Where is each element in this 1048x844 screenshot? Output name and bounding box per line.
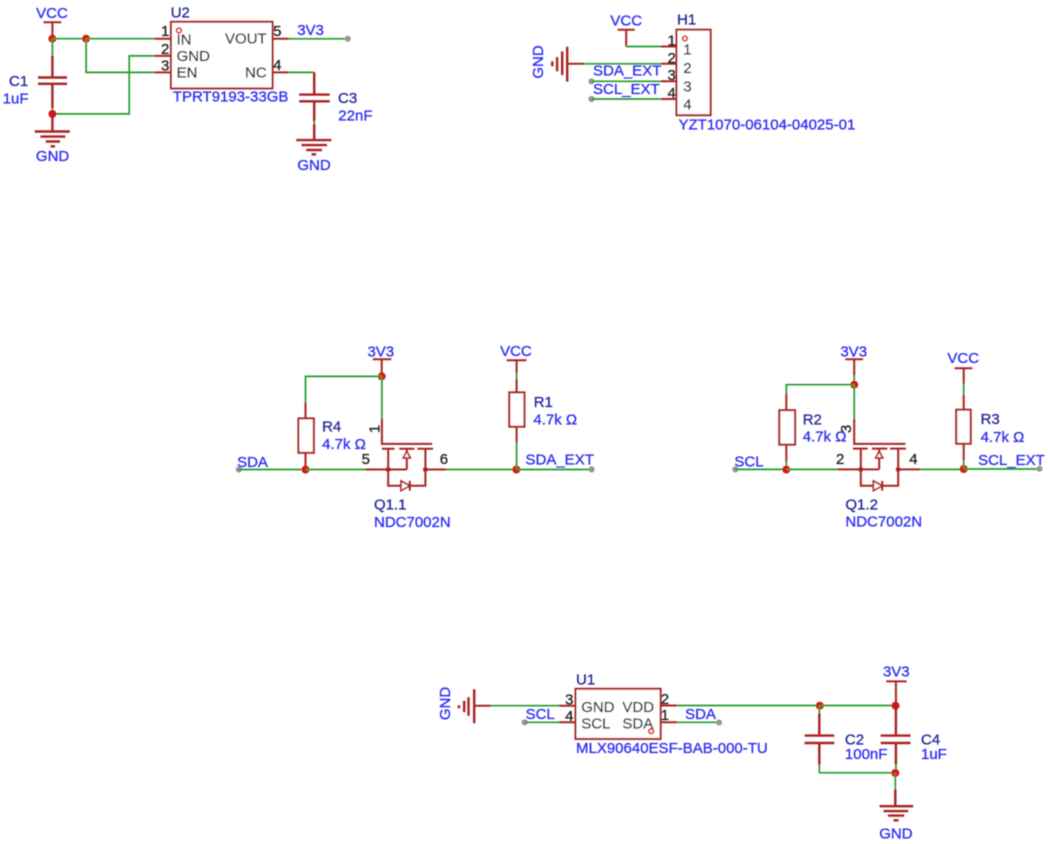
junction R3 bottom [960,465,968,473]
svg-text:5: 5 [273,23,281,40]
wire 3V3 to R2 top [786,385,854,394]
svg-text:NDC7002N: NDC7002N [845,513,922,530]
label C1 [9,73,28,90]
svg-text:VCC: VCC [500,343,532,360]
wire Q1.1 drain to SDA_EXT [446,469,516,471]
svg-text:R2: R2 [803,411,822,428]
svg-text:2: 2 [683,60,691,77]
svg-text:4.7k Ω: 4.7k Ω [533,411,577,428]
svg-text:GND: GND [297,157,331,174]
junction 3V3 gate node (SCL) [850,381,858,389]
junction node A2 [82,35,90,43]
label C3 [338,90,357,107]
resistor R3 [956,384,971,469]
svg-text:VCC: VCC [610,12,642,29]
wire GND to U1 pin3 [491,705,559,707]
capacitor C3 [299,72,330,140]
H1 inside pin name 1 [683,42,691,59]
junction C4 bottom [891,769,899,777]
svg-text:3V3: 3V3 [883,663,910,680]
net port dot 3V3 [345,36,351,42]
svg-text:NC: NC [245,65,267,82]
junction R4 bottom [302,466,310,474]
svg-text:R4: R4 [322,419,341,436]
pin name VOUT [225,31,267,48]
svg-text:TPRT9193-33GB: TPRT9193-33GB [173,89,289,106]
svg-text:GND: GND [581,699,615,716]
H1 outside pin number 2 [667,50,675,67]
power flag VCC (R1) [500,343,532,373]
value YZT1070-06104-04025-01 [679,116,856,133]
pin 1 marker circle U1 [649,729,654,734]
value 22nF [338,107,372,124]
net label 3V3 [297,22,324,39]
svg-text:VDD: VDD [622,699,654,716]
pin number 4 [273,57,281,74]
pin number 3 (U1) [565,692,573,709]
pin number 2 [161,41,169,58]
U1 pin stubs [559,706,677,723]
H1 inside pin name 3 [683,78,691,95]
wire 3V3 flag lead [853,376,855,385]
svg-text:4.7k Ω: 4.7k Ω [322,436,366,453]
net label SDA_EXT [526,451,594,468]
pin number 1 (Q1.1 gate, rotated) [367,425,384,433]
pin number 6 (Q1.1 drain) [440,451,448,468]
pin name IN [177,31,192,48]
svg-text:2: 2 [661,691,669,708]
svg-text:NDC7002N: NDC7002N [374,514,451,531]
svg-text:2: 2 [667,50,675,67]
net label SDA_EXT (H1) [593,63,661,80]
svg-text:GND: GND [879,826,913,843]
power flag 3V3 (SCL shifter) [840,344,867,376]
resistor R4 [298,402,313,469]
value 4.7kOhm (R1) [533,411,577,428]
net label SCL_EXT [978,452,1045,469]
capacitor C2 [805,706,835,773]
wire U2 pin2 GND to C1 bottom [52,56,154,114]
wire VDD to C2 [677,705,820,707]
pin number 2 (Q1.2 source) [836,451,844,468]
H1 outside pin number 1 [667,32,675,49]
svg-text:1uF: 1uF [3,90,29,107]
wire VCC to node [52,38,86,40]
svg-text:4: 4 [273,57,281,74]
H1 outside pin number 4 [667,85,675,102]
wire SCL_EXT to H1 pin4 [592,98,661,100]
ground (U1 pin3, rotated) [437,687,491,724]
svg-text:GND: GND [437,687,454,721]
U2 pin stubs [155,39,289,73]
svg-text:1: 1 [367,425,384,433]
junction R2 bottom [782,466,790,474]
net port dot SCL (U1) [522,719,528,725]
capacitor C1 [38,39,67,114]
designator U2 [171,5,190,22]
wire R2 node to Q1.2 source [786,468,837,470]
resistor R2 [779,394,795,470]
value NDC7002N (Q1.2) [845,513,922,530]
label R2 [803,411,822,428]
pin name VDD (U1) [622,699,654,716]
value TPRT9193-33GB [173,89,289,106]
pin number 5 [273,23,281,40]
svg-text:SCL: SCL [526,706,555,723]
svg-text:R3: R3 [981,411,1000,428]
H1 inside pin name 4 [683,96,691,113]
pin name GND (U1) [581,699,615,716]
ground (below C4) [879,789,913,842]
pin name SDA (U1) [622,716,653,733]
svg-text:100nF: 100nF [845,746,888,763]
value 100nF [845,746,888,763]
svg-text:3: 3 [565,692,573,709]
transistor Q1.1 [365,418,446,490]
wire C2 bottom to C4 bottom [819,772,895,774]
designator U1 [576,672,595,689]
H1 pin stubs [661,47,677,100]
svg-text:SDA_EXT: SDA_EXT [593,63,661,80]
net label SCL (U1) [526,706,555,723]
designator Q1.1 [374,496,407,513]
pin name EN [177,65,198,82]
value 4.7kOhm (R4) [322,436,366,453]
svg-text:2: 2 [161,41,169,58]
svg-text:GND: GND [530,45,547,79]
wire node to U2 pin3 EN [86,39,154,73]
pin 1 marker circle U2 [177,28,182,33]
svg-text:6: 6 [440,451,448,468]
net port dot SDA_EXT [588,466,594,472]
IC U2 body [171,22,273,89]
power flag 3V3 (U1) [883,663,910,705]
wire VOUT to 3V3 port [289,38,348,40]
pin number 5 (Q1.1 source) [362,451,370,468]
svg-text:3: 3 [667,67,675,84]
svg-text:3: 3 [683,78,691,95]
wire SDA_EXT to H1 pin3 [592,80,661,82]
wire GND to H1 pin2 [584,63,661,65]
wire 3V3 to Q1.1 gate [381,376,383,418]
svg-text:22nF: 22nF [338,107,372,124]
pin number 3 [161,57,169,74]
svg-text:GND: GND [36,148,70,165]
svg-text:4: 4 [565,708,573,725]
svg-text:SDA_EXT: SDA_EXT [526,451,594,468]
junction C2 top [816,702,824,710]
svg-text:1: 1 [661,707,669,724]
svg-text:YZT1070-06104-04025-01: YZT1070-06104-04025-01 [679,116,856,133]
svg-text:Q1.2: Q1.2 [845,497,878,514]
junction at C1 bottom [48,110,56,118]
label R4 [322,419,341,436]
pin name GND [177,48,211,65]
svg-text:3: 3 [838,425,855,433]
svg-text:1uF: 1uF [921,746,947,763]
H1 outside pin number 3 [667,67,675,84]
pin number 2 (U1) [661,691,669,708]
power flag 3V3 (SDA shifter) [367,343,394,376]
svg-text:4.7k Ω: 4.7k Ω [981,429,1025,446]
svg-text:1: 1 [683,42,691,59]
svg-text:VOUT: VOUT [225,31,267,48]
svg-text:VCC: VCC [947,350,979,367]
svg-text:5: 5 [362,451,370,468]
svg-text:4: 4 [909,451,917,468]
wire SCL to U1 pin4 [525,721,559,723]
junction at VCC/C1 [48,35,56,43]
svg-text:MLX90640ESF-BAB-000-TU: MLX90640ESF-BAB-000-TU [576,740,768,757]
svg-text:C3: C3 [338,90,357,107]
value NDC7002N (Q1.1) [374,514,451,531]
net port dot SCL [732,466,738,472]
wire SDA to R4 node [239,469,306,471]
value 4.7kOhm (R2) [803,429,847,446]
junction R1 bottom [512,466,520,474]
wire C2 to C4 [820,705,896,707]
junction C4 top [892,702,900,710]
svg-text:IN: IN [177,31,192,48]
net port dot SCL_EXT [588,96,594,102]
wire Q1.2 drain to SCL_EXT [921,468,964,470]
svg-text:U2: U2 [171,5,190,22]
value 1uF [3,90,29,107]
svg-text:1: 1 [161,23,169,40]
ground (below C3) [296,140,331,174]
wire to SCL_EXT port [964,468,1040,470]
net port dot SDA (U1) [716,720,722,726]
svg-text:2: 2 [836,451,844,468]
power flag VCC (H1) [610,12,642,46]
wire U1 pin1 to SDA port [677,721,719,723]
svg-text:SCL_EXT: SCL_EXT [593,81,660,98]
svg-text:VCC: VCC [36,5,68,22]
svg-text:SCL: SCL [734,454,763,471]
svg-text:3V3: 3V3 [367,343,394,360]
power flag VCC (U2 input) [36,5,68,39]
pin number 1 [161,23,169,40]
svg-text:SCL: SCL [581,716,610,733]
svg-text:U1: U1 [576,672,595,689]
svg-text:SCL_EXT: SCL_EXT [978,452,1045,469]
svg-text:4: 4 [683,96,691,113]
wire R4 node to Q1.1 source [306,469,366,471]
label R1 [534,394,553,411]
svg-text:3V3: 3V3 [840,344,867,361]
value MLX90640ESF-BAB-000-TU [576,740,768,757]
svg-text:SDA: SDA [685,706,716,723]
wire 3V3 to R4 top [306,376,382,402]
svg-text:1: 1 [667,32,675,49]
pin number 4 (U1) [565,708,573,725]
transistor Q1.2 [838,419,921,491]
net label SCL [734,454,763,471]
label C4 [921,732,940,749]
pin number 1 (U1) [661,707,669,724]
net label SDA [237,454,268,471]
designator Q1.2 [845,497,878,514]
pin number 4 (Q1.2 drain) [909,451,917,468]
svg-text:4: 4 [667,85,675,102]
pin name SCL (U1) [581,716,610,733]
net label SCL_EXT (H1) [593,81,660,98]
connector H1 box [677,30,711,116]
wire 3V3 to Q1.2 gate [853,385,855,419]
net port dot SDA_EXT [588,78,594,84]
net port dot SCL_EXT [1037,466,1043,472]
pin number 3 (Q1.2 gate, rotated) [838,425,855,433]
svg-text:3V3: 3V3 [297,22,324,39]
junction 3V3 gate node [378,372,386,380]
value 1uF [921,746,947,763]
net label SDA (U1) [685,706,716,723]
svg-text:H1: H1 [677,12,696,29]
wire VCC to H1 pin1 [626,46,661,48]
ground (H1 pin2, rotated) [530,45,584,81]
svg-text:EN: EN [177,65,198,82]
label R3 [981,411,1000,428]
pin 1 marker circle H1 [683,36,688,41]
wire to SDA_EXT port [516,469,591,471]
value 4.7kOhm (R3) [981,429,1025,446]
pin name NC [245,65,267,82]
wire node to U2 pin1 [86,38,154,40]
wire NC to C3 [289,71,314,73]
power flag VCC (R3) [947,350,979,384]
H1 inside pin name 2 [683,60,691,77]
svg-text:C1: C1 [9,73,28,90]
wire to ground (U1) [894,773,896,789]
svg-text:R1: R1 [534,394,553,411]
svg-text:SDA: SDA [237,454,268,471]
IC U1 body [576,689,661,739]
ground (below C1) [35,114,70,165]
svg-text:Q1.1: Q1.1 [374,496,407,513]
capacitor C4 [881,706,911,773]
svg-text:GND: GND [177,48,211,65]
net port dot SDA [236,466,242,472]
wire SCL to R2 node [735,468,786,470]
resistor R1 [509,373,524,470]
svg-text:3: 3 [161,57,169,74]
label C2 [845,732,864,749]
designator H1 [677,12,696,29]
